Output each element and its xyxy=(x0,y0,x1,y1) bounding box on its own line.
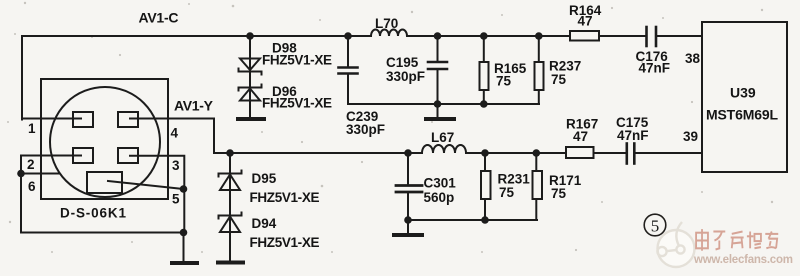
connector D-S-06K1 outer box xyxy=(41,79,168,199)
svg-text:75: 75 xyxy=(496,74,512,89)
wire AV1-Y rail mid xyxy=(466,152,566,154)
capacitor C239 xyxy=(347,36,349,66)
svg-text:U39: U39 xyxy=(730,85,756,101)
node C301 top xyxy=(404,149,412,157)
svg-text:330pF: 330pF xyxy=(386,69,425,84)
wire AV1-Y rail left xyxy=(214,152,422,154)
svg-text:AV1-C: AV1-C xyxy=(139,10,179,26)
svg-text:47nF: 47nF xyxy=(639,61,671,76)
svg-text:75: 75 xyxy=(499,185,515,200)
resistor R231 xyxy=(484,153,486,171)
wire pin2 line xyxy=(21,155,81,157)
ground for connector shell xyxy=(172,261,197,265)
svg-text:FHZ5V1-XE: FHZ5V1-XE xyxy=(250,190,320,205)
svg-text:2: 2 xyxy=(27,157,35,172)
wire AV1-C top rail left segment xyxy=(22,36,371,120)
svg-text:www.elecfans.com: www.elecfans.com xyxy=(693,254,793,266)
svg-text:D94: D94 xyxy=(252,216,277,231)
node R171 top xyxy=(533,149,541,157)
node R165 bottom xyxy=(480,100,488,108)
watermark text www.elecfans.com xyxy=(693,254,794,267)
ground for D98/D96 xyxy=(238,117,264,121)
resistor R171 xyxy=(535,153,537,171)
wire C-path bottom rail xyxy=(348,103,539,105)
diode D96 xyxy=(240,89,260,101)
wire AV1-Y rail into pin 39 xyxy=(636,152,702,154)
connector pin square TL xyxy=(73,112,93,127)
node C195 bottom xyxy=(434,100,442,108)
svg-text:75: 75 xyxy=(551,72,567,87)
ground for C-path rail xyxy=(437,104,439,117)
watermark logo circle xyxy=(657,222,694,267)
ground for C301 xyxy=(407,220,409,233)
node D98 top xyxy=(246,32,254,40)
page number circle 5 xyxy=(644,214,666,236)
capacitor C175 xyxy=(625,144,628,164)
IC U39 box xyxy=(702,22,787,172)
wire top rail mid segment xyxy=(407,35,570,37)
resistor R165 xyxy=(483,36,485,62)
svg-text:D-S-06K1: D-S-06K1 xyxy=(60,206,126,221)
inductor L70 xyxy=(371,30,407,37)
svg-text:FHZ5V1-XE: FHZ5V1-XE xyxy=(250,235,320,250)
node ground rail junction xyxy=(180,229,188,237)
wire AV1-Y rail after R167 xyxy=(594,152,626,154)
wire pin4 to AV1-Y drop xyxy=(130,119,214,154)
svg-text:5: 5 xyxy=(651,217,660,236)
connector pin square TR xyxy=(118,112,138,127)
diode D95 chain drop xyxy=(229,153,231,260)
capacitor C301 xyxy=(407,153,409,184)
svg-text:D95: D95 xyxy=(252,171,277,186)
resistor R167 xyxy=(566,147,594,158)
node pin6 junction xyxy=(17,170,25,178)
svg-text:6: 6 xyxy=(28,179,36,194)
capacitor C195 xyxy=(437,36,439,61)
node shield junction xyxy=(180,185,188,193)
svg-text:1: 1 xyxy=(28,121,36,136)
svg-text:47: 47 xyxy=(573,129,588,144)
svg-text:MST6M69L: MST6M69L xyxy=(706,107,778,123)
svg-text:3: 3 xyxy=(172,158,180,173)
diode D95 xyxy=(219,171,242,177)
wire pin6 line xyxy=(21,173,59,175)
node D95 top xyxy=(226,149,234,157)
svg-text:L67: L67 xyxy=(431,130,454,145)
node R165 top xyxy=(480,32,488,40)
svg-text:75: 75 xyxy=(551,186,567,201)
diode D94 xyxy=(219,213,242,219)
svg-text:330pF: 330pF xyxy=(346,122,385,137)
svg-text:FHZ5V1-XE: FHZ5V1-XE xyxy=(262,96,332,111)
resistor R237 xyxy=(538,36,540,62)
ground for D95/D94 xyxy=(218,261,243,265)
inductor L67 xyxy=(422,145,466,153)
svg-text:560p: 560p xyxy=(424,190,455,205)
connector pin square ML xyxy=(73,148,93,163)
svg-text:47nF: 47nF xyxy=(617,128,649,143)
capacitor C176 xyxy=(645,27,648,46)
diode D98 chain drop xyxy=(249,36,251,117)
watermark text 电子发烧友 (drawn as strokes) xyxy=(696,229,778,251)
svg-text:FHZ5V1-XE: FHZ5V1-XE xyxy=(262,53,332,68)
wire top rail into pin 38 xyxy=(657,35,702,37)
svg-text:4: 4 xyxy=(171,126,179,141)
node C195 top xyxy=(434,32,442,40)
connector shield rectangle xyxy=(87,172,122,193)
svg-text:47: 47 xyxy=(578,14,593,29)
wire connector ground drop xyxy=(21,156,184,263)
node C239 top xyxy=(344,32,352,40)
node R237 top xyxy=(535,32,543,40)
wire Y-path bottom rail xyxy=(408,219,537,221)
wire shield diagonal xyxy=(108,181,184,189)
node R231 top xyxy=(481,149,489,157)
svg-text:5: 5 xyxy=(172,192,180,207)
resistor R164 xyxy=(570,31,599,41)
svg-text:C195: C195 xyxy=(386,55,419,70)
svg-text:L70: L70 xyxy=(375,16,398,31)
connector pin square MR xyxy=(118,148,138,163)
diode D98 xyxy=(240,59,260,71)
svg-text:AV1-Y: AV1-Y xyxy=(174,98,214,114)
wire pin3 line and drop xyxy=(130,156,184,233)
svg-text:39: 39 xyxy=(683,129,698,144)
wire top rail after R164 xyxy=(599,35,646,37)
wire pin1 line xyxy=(22,118,81,120)
svg-text:C301: C301 xyxy=(424,176,457,191)
svg-text:38: 38 xyxy=(685,51,701,66)
connector circle xyxy=(50,87,160,197)
node C301 bottom xyxy=(404,216,412,224)
node R231 bottom xyxy=(481,216,489,224)
